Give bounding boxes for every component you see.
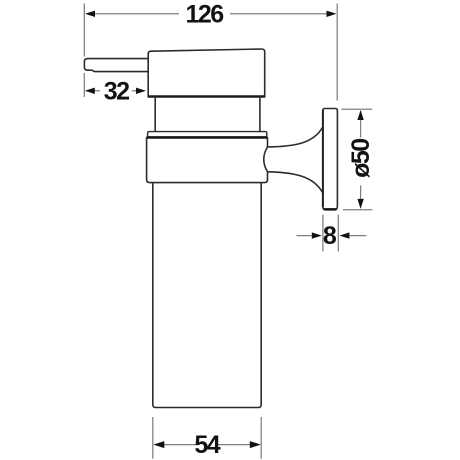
svg-text:54: 54 bbox=[194, 431, 220, 459]
svg-text:ø50: ø50 bbox=[347, 139, 375, 178]
svg-text:126: 126 bbox=[185, 1, 223, 29]
svg-text:32: 32 bbox=[104, 77, 129, 105]
svg-text:8: 8 bbox=[323, 222, 337, 250]
